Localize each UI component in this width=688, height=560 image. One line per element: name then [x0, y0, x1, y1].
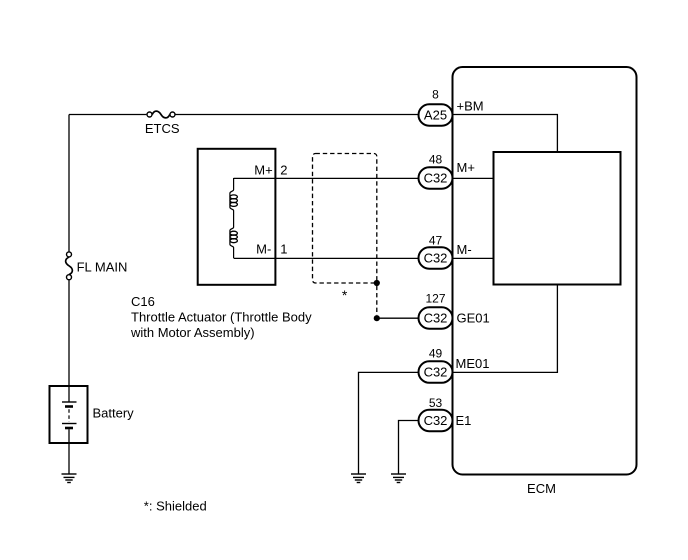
- svg-text:8: 8: [432, 88, 439, 102]
- connector C32 pin 47 (M-): [419, 247, 453, 269]
- node: shield corner junction: [374, 280, 380, 286]
- svg-text:with Motor Assembly): with Motor Assembly): [130, 325, 255, 340]
- node: shield drain junction: [374, 315, 380, 321]
- wire: ME01 internal: [453, 285, 558, 373]
- wire: shield drain to GE01: [377, 317, 419, 319]
- motor coil L2: [230, 231, 237, 243]
- connector C32 pin 48 (M+): [419, 167, 453, 189]
- svg-text:C16: C16: [131, 294, 155, 309]
- svg-text:ME01: ME01: [456, 356, 490, 371]
- wire: +BM internal: [453, 115, 558, 153]
- wire: ETCS fuse to A25 pin 8: [175, 114, 419, 116]
- svg-text:Battery: Battery: [93, 406, 135, 421]
- motor coil L1: [230, 195, 237, 207]
- wire: coil internal vertical rail: [230, 178, 234, 258]
- svg-text:FL MAIN: FL MAIN: [77, 260, 128, 275]
- svg-text:C32: C32: [424, 171, 448, 186]
- svg-text:Throttle Actuator (Throttle Bo: Throttle Actuator (Throttle Body: [131, 310, 312, 325]
- svg-text:47: 47: [429, 234, 443, 248]
- wire: +B feed top horizontal (battery to ETCS fuse): [69, 114, 146, 116]
- svg-text:M+: M+: [254, 163, 272, 178]
- svg-text:A25: A25: [424, 108, 447, 123]
- svg-text:+BM: +BM: [457, 99, 484, 114]
- wire: shield drain (dashed): [376, 286, 378, 315]
- wire: left vertical battery feed (lower): [68, 279, 70, 386]
- wire M- (actuator pin 1 to C32-47): [234, 257, 419, 259]
- fuse ETCS: [147, 111, 175, 118]
- svg-text:M+: M+: [457, 160, 475, 175]
- svg-text:C32: C32: [424, 413, 448, 428]
- wire: E1 to ground: [399, 421, 419, 475]
- svg-text:127: 127: [425, 292, 445, 306]
- connector C32 pin 53 (E1): [419, 410, 453, 432]
- connector C32 pin 49 (ME01): [419, 361, 453, 383]
- svg-text:53: 53: [429, 396, 443, 410]
- throttle actuator C16 box: [198, 149, 276, 285]
- wire: M+ internal: [453, 177, 494, 179]
- svg-text:C32: C32: [424, 251, 448, 266]
- svg-text:E1: E1: [456, 413, 472, 428]
- svg-text:2: 2: [280, 163, 287, 178]
- ground (E1): [391, 474, 406, 483]
- ECM box: [453, 67, 637, 475]
- svg-text:*: Shielded: *: Shielded: [144, 499, 207, 514]
- svg-text:48: 48: [429, 153, 443, 167]
- svg-text:ETCS: ETCS: [145, 121, 180, 136]
- svg-text:C32: C32: [424, 365, 448, 380]
- wire: M- internal: [453, 257, 494, 259]
- svg-text:C32: C32: [424, 311, 448, 326]
- svg-text:1: 1: [280, 242, 287, 257]
- connector A25 pin 8 (+BM): [419, 104, 453, 126]
- wire: battery negative to ground: [68, 443, 70, 474]
- shield (dashed box): [313, 154, 377, 284]
- wire: left vertical battery feed (upper): [68, 115, 70, 253]
- battery cell symbol: [62, 386, 77, 443]
- wire M+ (actuator pin 2 to C32-48): [234, 177, 419, 179]
- svg-text:*: *: [342, 287, 348, 303]
- ground (ME01): [351, 474, 366, 483]
- svg-text:M-: M-: [457, 242, 472, 257]
- wire: ME01 to ground: [359, 372, 419, 474]
- svg-text:ECM: ECM: [527, 481, 556, 496]
- ECM internal block: [494, 152, 621, 285]
- fusible link FL MAIN: [66, 252, 73, 280]
- ground (battery): [62, 474, 77, 483]
- svg-text:M-: M-: [256, 242, 271, 257]
- svg-text:49: 49: [429, 347, 443, 361]
- battery box: [50, 386, 88, 443]
- connector C32 pin 127 (GE01): [419, 307, 453, 329]
- svg-text:GE01: GE01: [457, 311, 490, 326]
